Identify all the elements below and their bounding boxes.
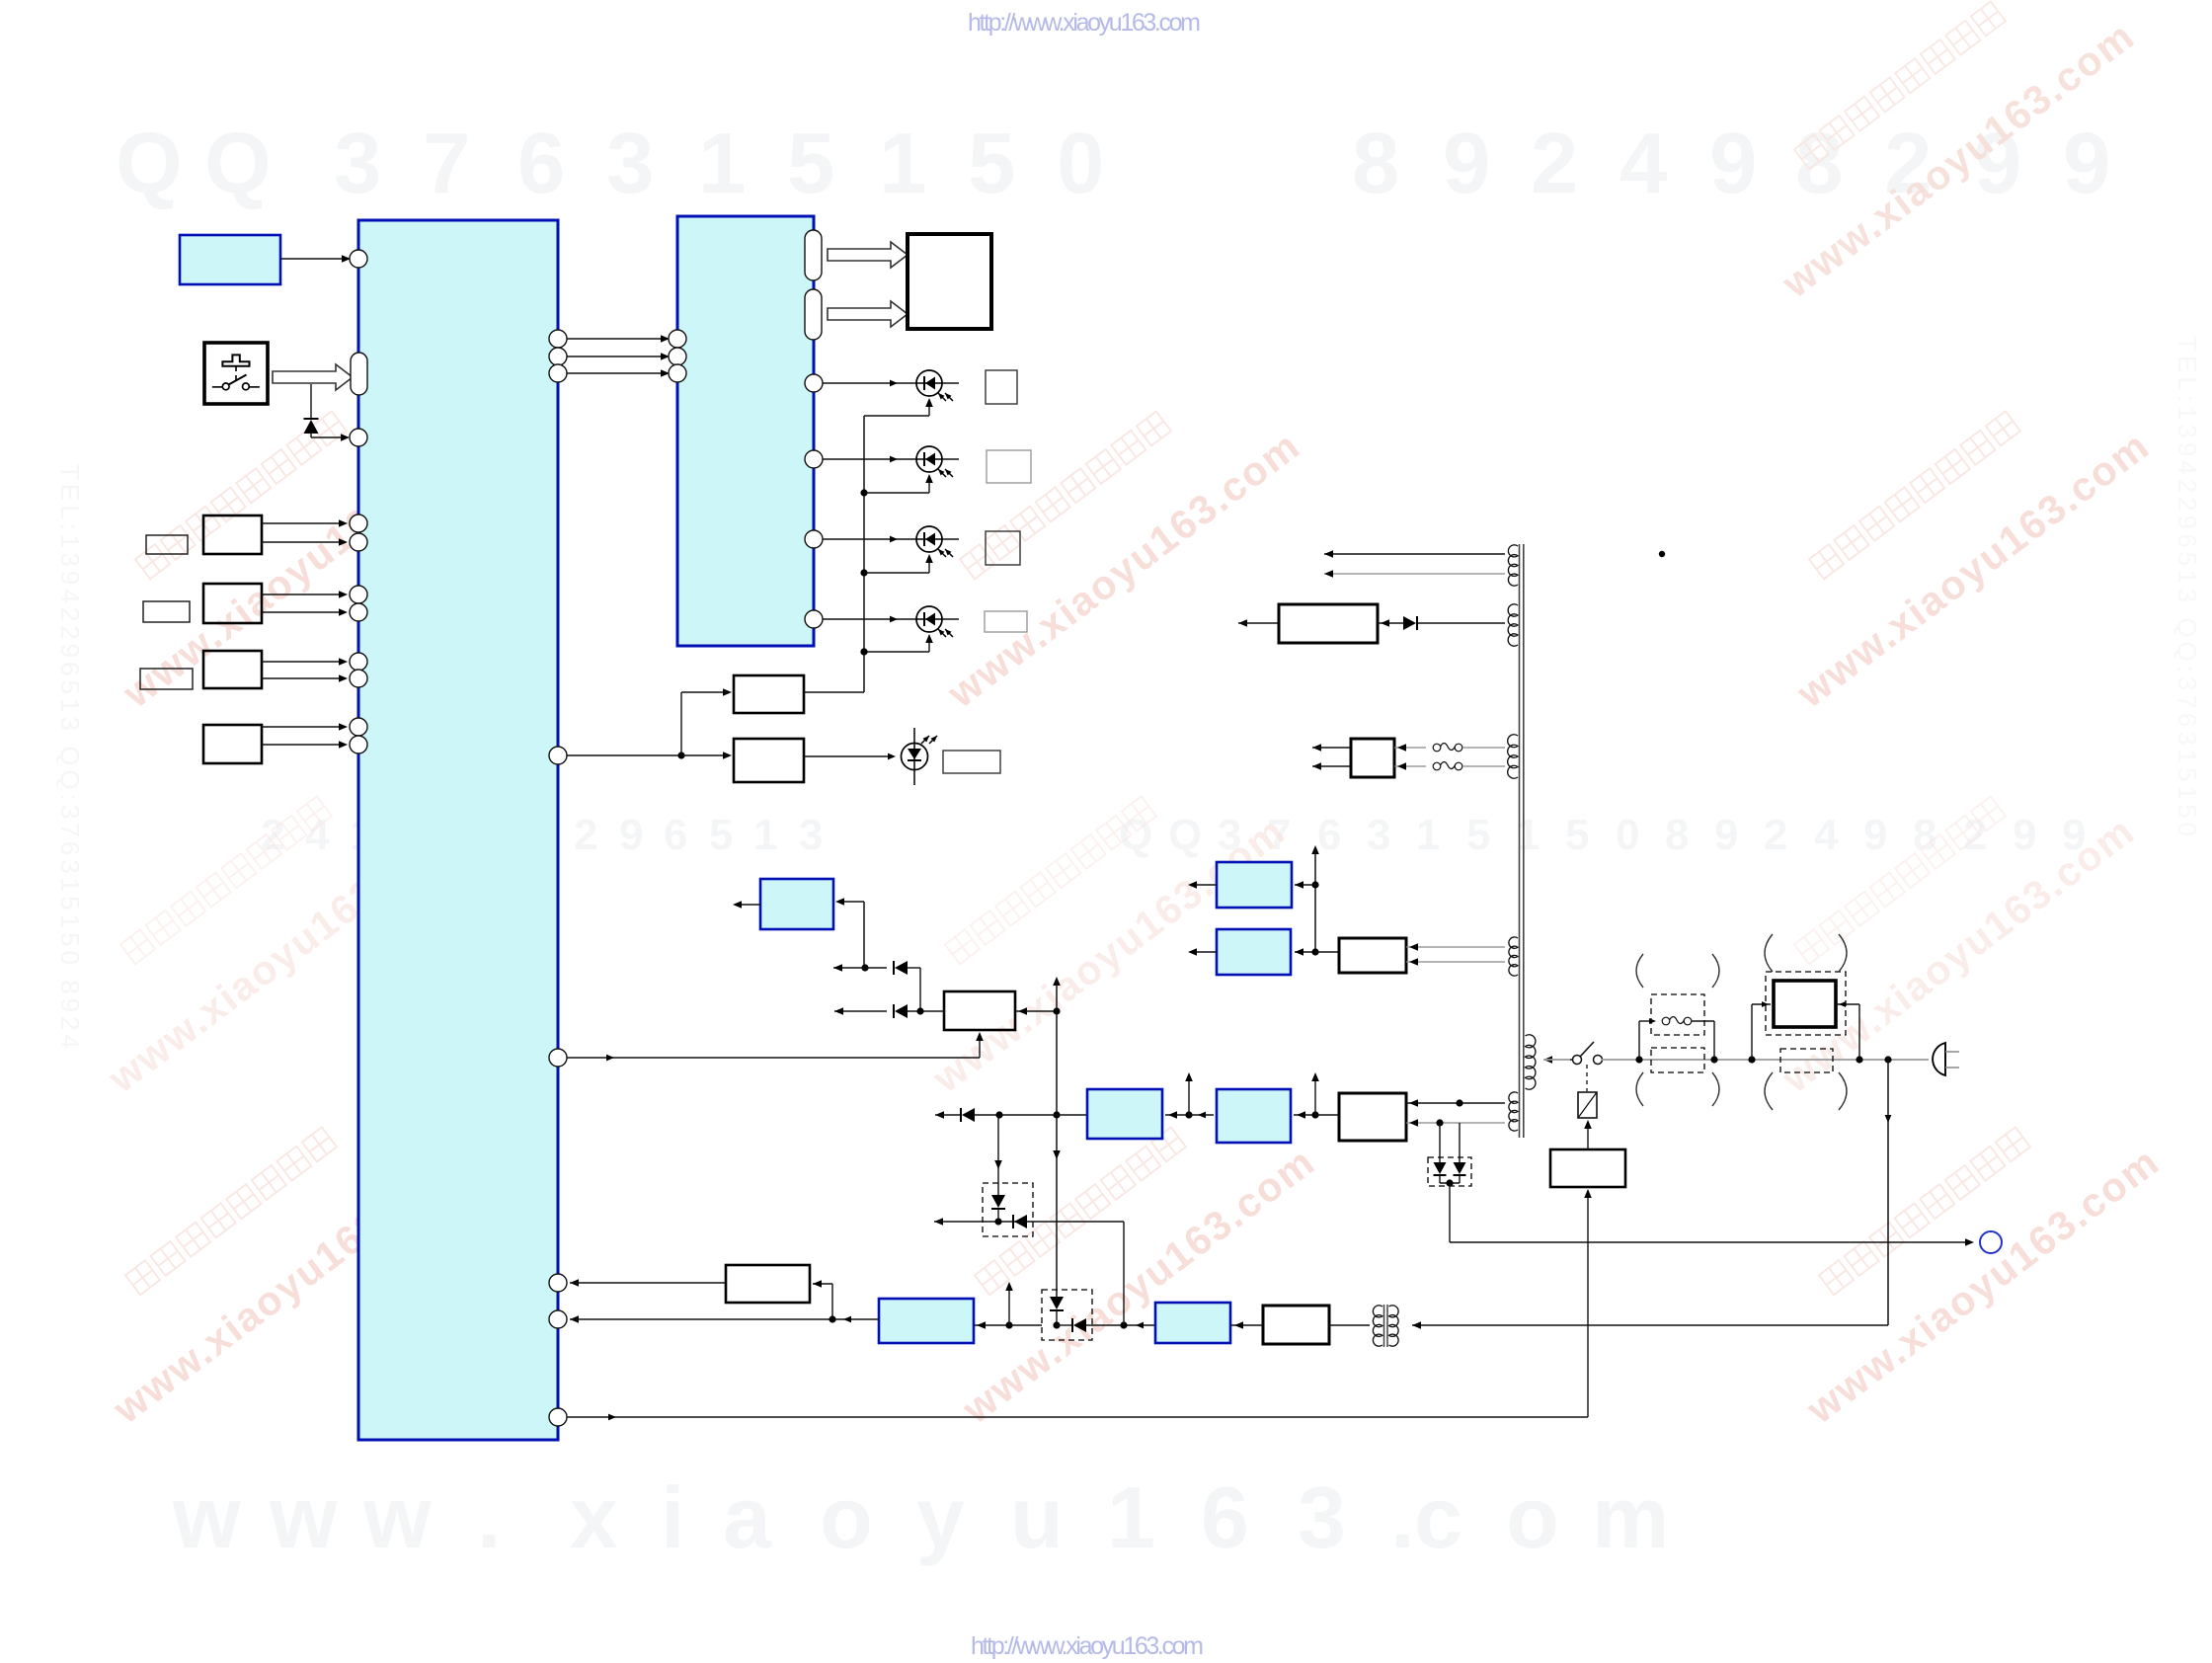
wire box G right input: [1015, 1007, 1057, 1015]
wire key4b: [262, 674, 348, 682]
AC plug: [1933, 1043, 1959, 1075]
wire +B row arrowend: [935, 1111, 960, 1119]
driver box F: [734, 739, 804, 782]
wire box4 right: [974, 1321, 1042, 1329]
wire row2 out left: [834, 1007, 887, 1015]
wire fuse1 to W3: [1462, 747, 1505, 749]
rectifier box B2: [1339, 1093, 1406, 1141]
winding W1: [1508, 545, 1518, 586]
wire into H: [1378, 619, 1403, 627]
hollow arrow grids to display: [828, 301, 908, 327]
opto box J: [726, 1265, 810, 1303]
pin circle U2 bus3: [669, 364, 686, 382]
wire protect row: [934, 1218, 1124, 1226]
wire up to box E: [681, 688, 732, 755]
node dot top right: [1659, 551, 1665, 557]
pin circle U2 led1: [805, 374, 823, 392]
svg-text:0: 0: [1616, 811, 1639, 859]
junction row2: [908, 1007, 944, 1014]
svg-text:6: 6: [1317, 811, 1341, 859]
wire reset to U1 pin: [280, 255, 351, 263]
fuse bypass loop: [1639, 1018, 1656, 1060]
wire switch to fuse node: [1602, 1059, 1639, 1061]
key block SW5: [203, 725, 262, 763]
wire diode to corner: [908, 968, 920, 1011]
regulator box G: [944, 991, 1015, 1030]
LED3 label box: [986, 531, 1020, 565]
fb T2 right coil: [1389, 1306, 1399, 1346]
wire fb1 to box J: [570, 1279, 726, 1287]
svg-text:o: o: [820, 1468, 873, 1566]
cyan box A1: [1217, 862, 1292, 908]
svg-text:7: 7: [423, 116, 470, 211]
key block SW3: [203, 584, 262, 623]
wire key5a: [262, 723, 348, 731]
transformer T1 core: [1520, 544, 1524, 1138]
diode D14: [1013, 1215, 1027, 1228]
svg-text:x: x: [570, 1468, 618, 1566]
svg-text:8: 8: [1913, 811, 1936, 859]
diode D8: [894, 1004, 908, 1018]
wire key2a: [262, 519, 348, 527]
svg-text:6: 6: [517, 116, 565, 211]
LED D2 (photo/indicator): [916, 370, 953, 401]
standby rect box7: [1263, 1306, 1329, 1344]
wire standby rail: [1450, 1183, 1974, 1246]
svg-text:m: m: [1592, 1468, 1669, 1566]
wire M output left: [733, 901, 760, 909]
svg-text:5: 5: [968, 116, 1015, 211]
fuse F2: [1433, 762, 1462, 770]
pin circle U1 relay-ctl: [549, 1408, 567, 1426]
key block SW4: [203, 651, 262, 688]
pill pin U2 grid out: [805, 289, 822, 340]
svg-text:Q: Q: [204, 116, 272, 211]
fuse dashed box upper: [1651, 994, 1704, 1035]
wire I out b: [1312, 762, 1351, 770]
wire AC return to fb transformer: [1412, 1321, 1888, 1329]
connector arcs degauss: [1765, 934, 1847, 1110]
svg-text:2: 2: [1764, 811, 1787, 859]
wire VCC out left: [833, 964, 887, 972]
pin circle U1 key5b: [350, 736, 367, 753]
terminal circle (remote supply): [1980, 1231, 2002, 1253]
wire fuse to node: [1692, 1021, 1718, 1064]
power LED D6: [902, 728, 938, 785]
diode D9: [961, 1108, 975, 1122]
wire upper rail drop: [1123, 1222, 1125, 1325]
LED D4 (photo/indicator): [916, 526, 953, 557]
wire box6 right: [1230, 1321, 1263, 1329]
diode D7: [894, 961, 908, 975]
pin circle U1 power-int: [350, 429, 367, 446]
svg-text:w: w: [362, 1468, 432, 1566]
wire W2 to diode: [1418, 622, 1505, 624]
svg-text:Q: Q: [1119, 811, 1152, 859]
wire U1 pin to junction: [567, 754, 681, 756]
regulator cyan box M: [760, 879, 833, 929]
wire A4 right: [1294, 1111, 1315, 1119]
svg-text:1: 1: [1107, 1468, 1155, 1566]
svg-text:6: 6: [1201, 1468, 1249, 1566]
svg-text:5: 5: [1565, 811, 1589, 859]
wire to diode13: [1057, 1324, 1072, 1326]
LED1 label box: [986, 370, 1017, 404]
LED cathode bus wire: [864, 398, 933, 692]
fb transformer T2 core: [1384, 1305, 1388, 1347]
wire I out a: [1312, 744, 1351, 752]
svg-text:Q: Q: [1168, 811, 1202, 859]
winding W3: [1508, 735, 1518, 779]
wire ps-on to box G: [567, 1032, 984, 1061]
svg-text:1: 1: [879, 116, 926, 211]
pin circle U1 fb2: [549, 1310, 567, 1328]
relay dashed link: [1586, 1065, 1588, 1091]
bus wire 3 U1 to U2: [567, 369, 670, 377]
wire J right input: [813, 1280, 832, 1319]
svg-text:9: 9: [1714, 811, 1738, 859]
svg-text:TEL:13942296513 QQ:376315150: TEL:13942296513 QQ:376315150: [2172, 336, 2202, 840]
svg-text:1: 1: [698, 116, 746, 211]
pin circle U1 bus1: [549, 330, 567, 348]
winding W4: [1509, 937, 1518, 976]
connector arcs fuse: [1636, 954, 1719, 1106]
wire U2 to LED2: [823, 456, 959, 463]
double diode dashed box: [1428, 1157, 1471, 1186]
wire relay control: [567, 1189, 1592, 1420]
posistor dashed box lower: [1780, 1049, 1833, 1072]
posistor block: [1774, 981, 1836, 1027]
svg-text:2: 2: [574, 811, 597, 859]
wire key5b: [262, 741, 348, 749]
pin circle U1 key3a: [350, 586, 367, 603]
pin circle U1 key4b: [350, 670, 367, 687]
svg-text:3: 3: [606, 116, 654, 211]
junction stby a: [1005, 1282, 1013, 1329]
junction plug drop: [1884, 1056, 1891, 1063]
svg-text:.: .: [477, 1468, 501, 1566]
svg-text:9: 9: [2013, 811, 2036, 859]
hollow arrow segments to display: [828, 242, 908, 268]
AC line segment: [1639, 1059, 1929, 1061]
junction fuse left: [1635, 1056, 1642, 1063]
wire U2 to LED3: [823, 536, 959, 543]
key block SW2: [203, 515, 262, 554]
svg-text:w: w: [172, 1468, 241, 1566]
key label box 1: [146, 535, 188, 554]
hollow arrow key to U1: [273, 364, 353, 390]
svg-text:0: 0: [1057, 116, 1104, 211]
svg-text:w: w: [269, 1468, 338, 1566]
pin circle U2 bus2: [669, 348, 686, 365]
svg-text:3: 3: [1367, 811, 1390, 859]
svg-text:8: 8: [1352, 116, 1399, 211]
wire B2 to winding b: [1406, 1119, 1505, 1127]
+B reg cyan box: [1087, 1089, 1162, 1139]
bus wire 1 U1 to U2: [567, 335, 670, 343]
wire I in b: [1394, 762, 1426, 770]
pin circle U2 led3: [805, 530, 823, 548]
pin circle U1 bus2: [549, 348, 567, 365]
svg-text:6: 6: [664, 811, 687, 859]
svg-text:2: 2: [1531, 116, 1578, 211]
rectifier box B1: [1339, 938, 1406, 973]
wire B1 winding b: [1406, 958, 1505, 966]
svg-text:y: y: [916, 1468, 965, 1566]
svg-text:9: 9: [1863, 811, 1887, 859]
wire into +B box: [1165, 1111, 1189, 1119]
svg-text:c: c: [1414, 1468, 1462, 1566]
pin circle U1 key5a: [350, 718, 367, 736]
junction node: [677, 752, 684, 758]
diode D13: [1072, 1318, 1086, 1332]
wire primary to switch: [1543, 1056, 1572, 1064]
svg-text:a: a: [723, 1468, 772, 1566]
power switch S2: [1570, 1042, 1603, 1065]
svg-text:5: 5: [787, 116, 834, 211]
wire W1 b: [1324, 570, 1505, 578]
posistor loop left: [1752, 1001, 1771, 1060]
junction stby c: [1120, 1321, 1144, 1328]
pin circle U1 reset input: [350, 250, 367, 268]
wire to box B2: [1315, 1114, 1339, 1116]
wire A2 out: [1188, 948, 1217, 956]
svg-text:9: 9: [619, 811, 643, 859]
fb T2 left coil: [1373, 1306, 1382, 1346]
svg-text:o: o: [1506, 1468, 1559, 1566]
svg-text:4: 4: [1619, 116, 1667, 211]
cyan box A2: [1217, 929, 1291, 975]
key label box 3: [140, 669, 193, 689]
relay coil RY1: [1578, 1092, 1597, 1118]
wire B1 winding a: [1406, 943, 1505, 951]
mains fuse F3: [1662, 1017, 1692, 1025]
driver box E: [734, 675, 804, 713]
svg-text:8: 8: [1665, 811, 1689, 859]
posistor dashed box: [1766, 972, 1846, 1035]
svg-text:5: 5: [709, 811, 733, 859]
pin circle U1 ps-on: [549, 1049, 567, 1067]
LED D3 (photo/indicator): [916, 446, 953, 477]
wire junction to A2: [1295, 948, 1319, 956]
vertical rail +B sense: [1053, 977, 1061, 1297]
pin circle U1 fb1: [549, 1274, 567, 1292]
wire rail to A1: [1295, 881, 1315, 889]
zener protect lower: [1050, 1297, 1064, 1325]
wire fuse2 to W3: [1462, 765, 1505, 767]
wire key3b: [262, 608, 348, 616]
pin circle U2 bus1: [669, 330, 686, 348]
power key switch box S1: [204, 343, 268, 404]
wire box E to LED bus: [804, 648, 868, 692]
fuse F1: [1433, 744, 1462, 752]
wire B1 to junction: [1315, 951, 1339, 953]
svg-text:i: i: [661, 1468, 684, 1566]
key label box 2: [143, 601, 190, 622]
LED4 label box: [985, 611, 1027, 632]
diode D1 to power-int pin: [304, 384, 351, 441]
wire W1 a: [1324, 550, 1505, 558]
upper protect dashed box: [983, 1183, 1033, 1236]
pill pin U2 seg out: [805, 230, 822, 280]
wire M input from rail: [835, 898, 864, 968]
bus junction y660: [860, 634, 932, 656]
svg-text:1: 1: [1416, 811, 1440, 859]
winding W2: [1508, 604, 1518, 646]
diode D10: [1403, 616, 1417, 630]
svg-text:.: .: [1390, 1468, 1414, 1566]
posistor loop right: [1836, 1001, 1863, 1064]
reset IC block: [180, 235, 280, 284]
lower protect dashed box: [1042, 1290, 1092, 1340]
wire junction to A4: [1189, 1112, 1214, 1119]
pin circle U2 led4: [805, 610, 823, 628]
junction posistor left: [1748, 1056, 1755, 1063]
wire key2b: [262, 538, 348, 546]
junction VCC rail: [861, 964, 868, 971]
wire plug drop: [1885, 1060, 1892, 1325]
junction +B b: [1311, 1072, 1319, 1119]
junction +B sense: [995, 1111, 1002, 1118]
svg-text:1: 1: [753, 811, 777, 859]
winding W5: [1509, 1092, 1518, 1131]
vertical rail 2: [1311, 845, 1319, 952]
wire diode to box3: [975, 1114, 1087, 1116]
svg-text:3: 3: [1298, 1468, 1346, 1566]
protector box I: [1351, 739, 1394, 777]
primary winding P1: [1526, 1035, 1536, 1090]
wire A1 out: [1188, 881, 1217, 889]
bus junction y499: [860, 474, 932, 497]
wire H out: [1238, 619, 1279, 627]
wire U2 to LED1: [823, 380, 959, 387]
bus wire 2 U1 to U2: [567, 353, 670, 360]
rectifier box H: [1279, 604, 1378, 643]
double diode D11 D12: [1434, 1162, 1466, 1187]
wire to junction c: [1086, 1324, 1155, 1326]
wire fb2 row: [570, 1315, 879, 1323]
junction stby b: [1053, 1321, 1060, 1328]
svg-text:u: u: [1010, 1468, 1064, 1566]
pin circle U1 led-ctl: [549, 747, 567, 764]
pin circle U1 bus3: [549, 364, 567, 382]
svg-text:http://www.xiaoyu163.com: http://www.xiaoyu163.com: [968, 9, 1201, 37]
pin circle U1 key2a: [350, 515, 367, 532]
pin circle U1 key3b: [350, 603, 367, 621]
pin circle U1 key2b: [350, 533, 367, 551]
pin circle U2 led2: [805, 450, 823, 468]
wire box7 to T2: [1329, 1324, 1370, 1326]
stby cyan box4: [879, 1299, 974, 1343]
wire I in a: [1394, 744, 1426, 752]
pin circle U1 key4a: [350, 653, 367, 671]
svg-text:9: 9: [1443, 116, 1490, 211]
display block (FL tube): [908, 234, 991, 329]
power LED label box: [943, 751, 1000, 773]
svg-text:9: 9: [1709, 116, 1757, 211]
wire driver to coil: [1584, 1120, 1592, 1149]
fuse dashed box lower: [1651, 1048, 1704, 1072]
svg-text:TEL:13942296513 QQ:376315150: TEL:13942296513 QQ:376315150 8924: [55, 464, 85, 1053]
wire U2 to LED4: [823, 616, 959, 623]
wire box F to power LED: [804, 753, 896, 760]
LED2 label box: [987, 450, 1031, 483]
junction protect: [994, 1218, 1001, 1225]
pill pin U1 key-in: [351, 353, 367, 395]
wires into double diode: [1440, 1123, 1460, 1162]
stby cyan box6: [1155, 1303, 1230, 1343]
svg-text:Q: Q: [116, 116, 183, 211]
svg-text:3: 3: [799, 811, 823, 859]
relay driver box: [1550, 1149, 1625, 1187]
junction +B a: [1185, 1072, 1193, 1119]
wire key3a: [262, 591, 348, 598]
wire B2 to winding a: [1406, 1099, 1505, 1107]
LED D5 (photo/indicator): [916, 606, 953, 637]
svg-text:http://www.xiaoyu163.com: http://www.xiaoyu163.com: [971, 1632, 1204, 1660]
zener protect upper: [991, 1115, 1005, 1222]
wire to box F: [681, 752, 732, 759]
system-control microcontroller IC block U1 (syscon): [358, 220, 558, 1440]
rectifier cyan box A4: [1217, 1089, 1291, 1143]
display driver IC block U2: [677, 216, 814, 646]
svg-text:3: 3: [334, 116, 381, 211]
bus junction y580: [860, 554, 932, 577]
wire key4a: [262, 658, 348, 666]
svg-text:9: 9: [2063, 116, 2110, 211]
svg-text:5: 5: [1466, 811, 1490, 859]
svg-text:4: 4: [1814, 811, 1839, 859]
